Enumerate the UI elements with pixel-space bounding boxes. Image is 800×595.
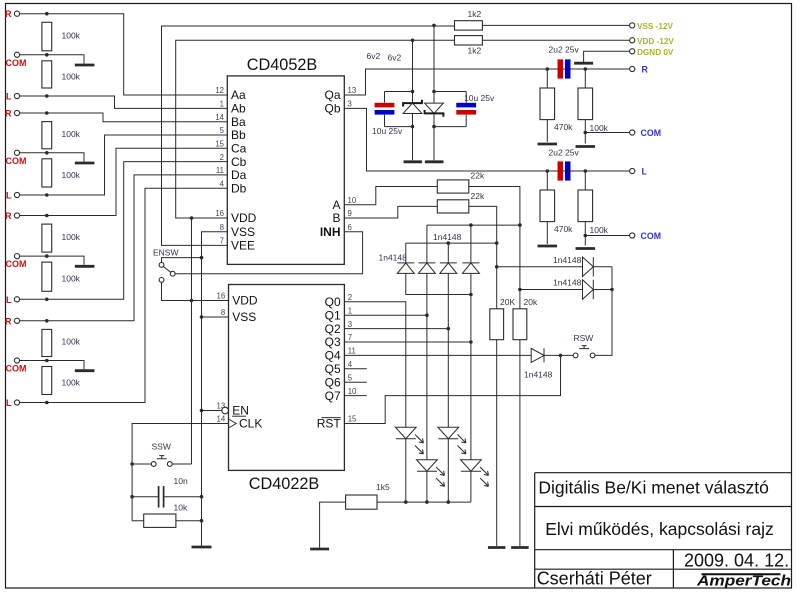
svg-text:Q6: Q6 [325,375,341,389]
svg-text:VDD: VDD [232,294,258,308]
svg-text:2: 2 [348,293,352,302]
resistor 100k (group 2 upper) [42,122,81,149]
terminal COM input 3 [6,254,27,270]
svg-text:RST: RST [317,417,342,431]
ground (right zener) [425,160,444,163]
capacitor 2u2 25v (R output) [549,45,580,79]
svg-text:1k5: 1k5 [376,482,390,492]
svg-text:10u 25v: 10u 25v [464,93,495,103]
wire L3 to pin Cb [20,162,228,302]
svg-text:1n4148: 1n4148 [553,278,582,288]
switch ENSW [153,247,179,282]
switch RSW (reset pushbutton) [573,333,595,358]
op-amp U1 CD4052B analog multiplexer [215,56,357,265]
terminal L input 2 [6,191,20,201]
svg-text:Q2: Q2 [325,322,341,336]
svg-text:A: A [332,198,340,212]
wire COM 1 to ground [20,53,84,64]
resistor 1k2 (VSS rail) [455,9,483,30]
svg-text:15: 15 [348,415,357,424]
diode 1n4148 D2 (Q1 to A) [418,225,461,460]
resistor 470k (L output) [540,171,573,244]
svg-text:VSS: VSS [231,225,255,239]
wire R3 to pin Ca [20,148,228,217]
ground (1k5) [310,548,329,551]
svg-text:13: 13 [348,86,357,95]
svg-text:14: 14 [215,113,224,122]
svg-text:7: 7 [348,333,352,342]
svg-text:R: R [642,65,649,75]
svg-text:Q7: Q7 [325,389,341,403]
wire 20K to ground [496,340,498,546]
svg-text:DGND 0V: DGND 0V [637,48,674,57]
terminal VDD -12V [630,37,675,46]
svg-text:AmperTech: AmperTech [696,573,791,589]
wire A pin10 to 22k [344,187,437,205]
capacitor 10u 25v (right, electrolytic) [434,92,495,127]
svg-text:Q3: Q3 [325,335,341,349]
svg-text:COM: COM [6,156,27,166]
svg-text:2u2 25v: 2u2 25v [549,45,580,55]
zener diode 6v2 (right) [388,53,444,117]
svg-text:R: R [5,211,12,221]
terminal R input 1 [5,9,20,19]
wire SSW left [130,462,151,466]
svg-text:Cserháti Péter: Cserháti Péter [537,569,652,589]
diode 1n4148 D1 (Q3 to B) [379,243,471,294]
svg-text:6v2: 6v2 [388,53,402,63]
terminal R input 3 [5,211,20,221]
resistor 100k (group 4 upper) [42,329,81,356]
svg-text:1k2: 1k2 [468,46,482,56]
ground (left zener) [404,160,423,163]
svg-text:100k: 100k [62,378,81,388]
wire L2 to pin Bb [20,135,228,197]
svg-text:B: B [332,211,340,225]
svg-text:15: 15 [215,140,224,149]
wire VDD tie (4052 VDD to 4022 VDD to SSW) [191,218,193,464]
svg-text:VEE: VEE [231,239,255,253]
svg-text:RSW: RSW [574,333,594,343]
terminal COM R output [630,128,661,138]
svg-text:VSS -12V: VSS -12V [637,22,673,31]
ground (input group 1) [75,64,95,67]
LED 3 (Q1) [417,460,445,487]
svg-text:Bb: Bb [231,128,246,142]
svg-text:2009. 04. 12.: 2009. 04. 12. [684,551,789,571]
resistor 100k (L output) [578,171,609,246]
svg-text:4: 4 [348,360,353,369]
terminal R input 4 [5,316,20,326]
op-amp U2 CD4022B counter [217,285,358,494]
wire Q5 stub [344,368,366,370]
svg-text:Da: Da [231,168,247,182]
title block [535,473,792,589]
resistor 20k (A pulldown) [513,297,538,340]
terminal R output [630,65,649,75]
capacitor 10u 25v (left, electrolytic) [372,92,413,137]
svg-text:2u2 25v: 2u2 25v [549,148,580,158]
svg-text:22k: 22k [471,191,485,201]
wire 4022 VSS pin8 [202,316,229,318]
svg-text:5: 5 [348,373,353,382]
wire LED2 to rail [447,439,449,502]
svg-text:CD4052B: CD4052B [247,56,318,74]
svg-text:Ab: Ab [231,102,246,116]
svg-text:10k: 10k [174,503,188,513]
svg-text:R: R [5,109,12,119]
svg-text:Ba: Ba [231,115,246,129]
wire LED cathode rail [377,500,471,504]
resistor 100k (R output) [578,69,609,144]
wire Q7 stub [344,395,366,397]
wire Q0 to LED column [344,302,405,427]
svg-text:COM: COM [6,364,27,374]
svg-text:Ca: Ca [231,142,247,156]
diode 1n4148 D5 (Q4 reset) [524,348,553,379]
svg-text:Elvi működés, kapcsolási rajz: Elvi működés, kapcsolási rajz [545,519,774,539]
wire SSW right to VDD tie [172,463,191,465]
wire VDD pin16 to VDD -12V rail [176,40,455,220]
capacitor 2u2 25v (L output) [549,148,580,181]
resistor 100k (group 3 lower) [42,262,81,291]
LED 2 (Q2) [438,427,466,454]
terminal COM input 2 [6,150,27,166]
svg-text:L: L [6,92,12,102]
wire RST pin15 [344,355,560,423]
svg-text:COM: COM [641,231,662,241]
svg-text:Q0: Q0 [325,295,341,309]
wire VEE pin7 to VSS -12V rail [162,26,455,245]
svg-text:3: 3 [348,100,352,109]
wire CLK pin14 [132,424,228,521]
svg-text:Qa: Qa [324,88,340,102]
wire R2 to pin Ba [20,111,228,122]
ground (20K) [488,546,506,549]
resistor 22k (B) [437,191,485,213]
wire EN pin13 [202,410,222,412]
ground (DGND) [574,62,593,65]
wire RSW to reset diodes [595,267,614,356]
wire VSS pin8 tie rail [200,232,228,546]
wire Q3 [344,341,471,343]
svg-text:R: R [5,316,12,326]
wire 1k2 to VSS terminal [432,24,629,28]
resistor 100k (group 2 lower) [42,159,81,187]
svg-text:COM: COM [6,58,27,68]
resistor 22k (A) [437,171,485,194]
wire R4 to pin Da [20,175,228,323]
wire LED3 to rail [426,471,428,502]
svg-text:R: R [5,9,12,19]
wire L1 to pin Ab [20,94,228,108]
ground (470k R) [538,143,558,146]
LED 1 (Q0) [395,427,423,454]
ground (VSS rail bottom) [192,546,212,549]
svg-text:8: 8 [220,223,224,232]
diode 1n4148 (B net reset) [497,255,612,277]
svg-text:Qb: Qb [324,102,340,116]
wire 1k2 to VDD terminal [411,39,630,43]
svg-text:22k: 22k [471,171,485,181]
svg-text:470k: 470k [554,224,573,234]
svg-text:VSS: VSS [232,310,256,324]
svg-text:11: 11 [216,166,224,175]
svg-text:8: 8 [221,308,225,317]
wire 20k to ground [519,340,521,546]
ground (100k R) [576,145,596,148]
wire ENSW top contact [162,258,202,263]
resistor 100k (group 4 lower) [42,367,81,395]
terminal R input 2 [5,109,20,119]
svg-text:20k: 20k [524,297,538,307]
LED 4 (Q3) [461,460,489,487]
svg-text:10u 25v: 10u 25v [372,126,403,136]
wire B select rail [406,241,497,245]
svg-text:1n4148: 1n4148 [524,370,553,380]
wire 1k5 to ground [320,502,346,547]
wire 22k A to pulldown/diodes [469,187,522,309]
wire A select line [427,223,520,227]
svg-text:Q5: Q5 [325,362,341,376]
wire Qa to R output [344,67,629,95]
ground (input group 2) [75,162,95,165]
svg-text:Db: Db [231,181,247,195]
wire Qb to L output [344,108,629,172]
svg-text:9: 9 [348,209,352,218]
wire LED4 to rail [470,471,472,502]
svg-text:1: 1 [348,306,352,315]
svg-text:100k: 100k [62,274,81,284]
svg-text:1k2: 1k2 [468,9,482,19]
terminal COM input 1 [6,52,27,68]
svg-text:4: 4 [220,179,225,188]
svg-text:20K: 20K [500,297,515,307]
terminal COM input 4 [6,358,27,374]
wire D5 to RSW [544,354,573,358]
svg-text:14: 14 [217,415,226,424]
ground (100k L) [576,247,596,250]
svg-text:100k: 100k [62,129,81,139]
wire VDD rail down (zener branch) [411,40,415,160]
capacitor 10n [130,476,201,508]
ground (input group 3) [75,265,95,268]
svg-text:16: 16 [217,292,226,301]
terminal L input 1 [6,92,20,102]
svg-text:16: 16 [215,209,224,218]
wire COM 4 to ground [20,359,84,370]
svg-text:100k: 100k [62,170,81,180]
wire Q6 stub [344,381,366,383]
svg-text:VDD: VDD [231,211,257,225]
wire COM L output [584,234,630,238]
wire ENSW bottom contact to 4022 VDD [162,282,229,302]
resistor 10k [132,503,201,528]
diode 1n4148 D3 (Q2 to B) [440,243,457,427]
svg-text:ENSW: ENSW [153,247,179,257]
svg-text:Q1: Q1 [325,308,341,322]
svg-text:100k: 100k [62,232,81,242]
svg-text:VDD -12V: VDD -12V [637,37,674,46]
svg-text:1n4148: 1n4148 [433,232,462,242]
wire VSS rail down (zener branch) [432,25,436,160]
resistor 100k (group 1 upper) [42,22,81,51]
wire Q1 [344,314,427,316]
svg-text:Aa: Aa [231,88,246,102]
svg-text:11: 11 [348,347,356,356]
svg-text:Digitális Be/Ki menet választó: Digitális Be/Ki menet választó [538,477,769,497]
svg-text:1: 1 [220,100,224,109]
svg-text:INH: INH [320,225,341,239]
wire Q4 to reset diode [344,354,531,356]
resistor 1k2 (VDD rail) [455,36,483,56]
terminal L output [630,167,648,177]
wire COM 2 to ground [20,151,84,162]
svg-text:5: 5 [220,126,225,135]
svg-text:7: 7 [220,237,224,246]
logo AmperTech [696,573,791,589]
svg-text:100k: 100k [590,225,609,235]
svg-text:L: L [6,398,12,408]
wire ENSW pole to INH [175,232,363,274]
resistor 20K (B pulldown) [490,297,516,340]
svg-text:10: 10 [348,387,357,396]
resistor 100k (group 3 upper) [42,224,81,252]
svg-text:100k: 100k [62,30,81,40]
svg-text:SSW: SSW [152,442,171,452]
svg-text:1n4148: 1n4148 [553,255,582,265]
wire Q2 [344,328,448,330]
wire COM R output [584,131,630,135]
terminal VSS -12V [630,22,674,31]
svg-text:L: L [6,295,12,305]
svg-text:L: L [642,167,648,177]
resistor 1k5 [346,482,390,509]
svg-text:Q4: Q4 [325,349,341,363]
svg-text:2: 2 [220,153,224,162]
svg-text:COM: COM [641,128,662,138]
svg-text:6: 6 [348,223,352,232]
terminal L input 4 [6,398,20,408]
wire R1 to pin Aa [20,12,228,95]
svg-text:470k: 470k [554,122,573,132]
diode 1n4148 (A net reset) [520,278,612,300]
terminal L input 3 [6,295,20,305]
svg-text:EN: EN [232,404,249,418]
svg-text:L: L [6,191,12,201]
svg-text:12: 12 [215,86,224,95]
terminal COM L output [630,231,661,241]
svg-text:CLK: CLK [239,417,262,431]
wire L4 to pin Db [20,188,228,404]
resistor 100k (group 1 lower) [42,61,81,88]
wire B pin9 to 22k [344,206,437,218]
svg-text:1n4148: 1n4148 [379,253,408,263]
svg-text:100k: 100k [62,71,81,81]
ground (input group 4) [75,369,95,372]
wire COM 3 to ground [20,254,84,264]
svg-text:10: 10 [348,196,357,205]
wire DGND to ground [584,51,630,62]
wire LED1 to rail [405,439,407,502]
svg-text:10n: 10n [174,476,188,486]
svg-text:COM: COM [6,259,27,269]
zener diode 6v2 (left) [367,51,422,114]
switch SSW (step pushbutton) [151,442,172,467]
svg-text:100k: 100k [590,123,609,133]
svg-text:Cb: Cb [231,155,247,169]
resistor 470k (R output) [540,69,573,142]
svg-text:CD4022B: CD4022B [249,475,320,493]
svg-text:6v2: 6v2 [367,51,381,61]
svg-text:3: 3 [348,320,352,329]
diode 1n4148 D4 (Q3 to A) [462,225,479,460]
svg-text:100k: 100k [62,337,81,347]
terminal DGND 0V [630,48,674,57]
ground (470k L) [538,245,558,248]
wire 22k B to pulldown/diodes [469,206,499,308]
ground (20k) [511,546,529,549]
